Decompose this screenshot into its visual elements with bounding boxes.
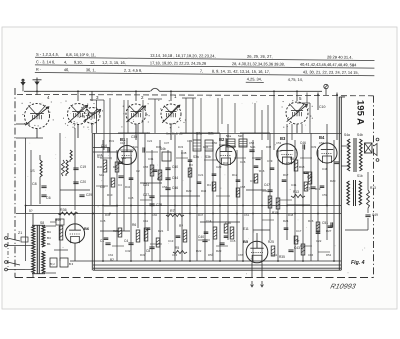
svg-text:R3: R3 (189, 163, 193, 167)
svg-text:B6: B6 (84, 226, 90, 231)
svg-text:195 A: 195 A (355, 100, 366, 125)
svg-text:C63: C63 (172, 253, 178, 257)
svg-text:R49: R49 (140, 253, 146, 257)
svg-text:C27: C27 (143, 193, 149, 197)
svg-text:R10: R10 (107, 193, 113, 197)
svg-text:R52: R52 (326, 253, 332, 257)
svg-text:17,18, 19,20, 21 22,23, 24,25,: 17,18, 19,20, 21 22,23, 24,25,26 (150, 60, 206, 66)
svg-text:C39: C39 (267, 159, 273, 163)
svg-text:R46: R46 (55, 218, 61, 222)
svg-text:R22: R22 (196, 249, 202, 253)
svg-text:R1: R1 (113, 165, 117, 169)
svg-text:C37: C37 (164, 141, 170, 145)
svg-text:R36: R36 (60, 208, 67, 212)
svg-text:S4a: S4a (344, 133, 350, 137)
svg-text:C5: C5 (100, 185, 105, 189)
svg-text:C44: C44 (172, 176, 178, 180)
svg-text:C43: C43 (187, 139, 193, 143)
svg-text:B4: B4 (47, 236, 51, 240)
svg-text:R41: R41 (223, 161, 229, 165)
svg-text:S4b: S4b (357, 133, 363, 137)
svg-text:C8: C8 (146, 249, 150, 253)
svg-text:R24: R24 (283, 219, 289, 223)
svg-text:C22: C22 (316, 239, 322, 243)
svg-text:52b: 52b (238, 134, 243, 138)
svg-text:R51: R51 (272, 253, 278, 257)
svg-text:4,75, 14,: 4,75, 14, (288, 77, 303, 82)
svg-text:7,: 7, (200, 68, 203, 73)
svg-text:C41: C41 (291, 183, 297, 187)
svg-text:R44: R44 (262, 189, 268, 193)
svg-text:R31: R31 (109, 139, 115, 143)
svg-text:C30: C30 (131, 135, 137, 139)
svg-text:C55: C55 (143, 165, 149, 169)
svg-text:28, 4,30,31,32,34,35,36 39,38,: 28, 4,30,31,32,34,35,36 39,38, (232, 61, 285, 67)
svg-text:43, 30, 21, 22, 23, 24, 27,: 43, 30, 21, 22, 23, 24, 27, (303, 69, 347, 74)
svg-text:C22: C22 (147, 139, 153, 143)
svg-text:C8: C8 (32, 182, 37, 186)
svg-text:C42: C42 (307, 175, 313, 179)
svg-text:C65: C65 (238, 253, 244, 257)
svg-text:R23: R23 (216, 249, 222, 253)
svg-text:R13: R13 (370, 186, 376, 190)
svg-text:C60: C60 (152, 213, 158, 217)
svg-text:Z1: Z1 (18, 231, 22, 235)
svg-text:C4: C4 (124, 239, 128, 243)
svg-text:C62: C62 (108, 253, 114, 257)
svg-text:R17: R17 (283, 173, 289, 177)
svg-text:R25: R25 (268, 240, 274, 244)
svg-text:4,25, 34,: 4,25, 34, (247, 76, 262, 81)
svg-text:C48: C48 (322, 167, 328, 171)
svg-text:R45: R45 (105, 213, 111, 217)
svg-text:R15: R15 (272, 211, 278, 215)
svg-text:C57: C57 (162, 185, 168, 189)
svg-text:C2: C2 (136, 169, 140, 173)
svg-text:C56: C56 (286, 161, 292, 165)
svg-text:R32: R32 (156, 145, 162, 149)
svg-text:R?: R? (179, 224, 183, 228)
svg-text:S1b: S1b (357, 174, 363, 178)
svg-text:R4: R4 (207, 183, 211, 187)
svg-text:1S: 1S (30, 169, 35, 173)
svg-text:R33: R33 (178, 145, 184, 149)
svg-text:C29: C29 (86, 193, 92, 197)
svg-text:C26: C26 (240, 160, 246, 164)
svg-text:12,: 12, (90, 60, 95, 65)
svg-text:C17: C17 (296, 229, 302, 233)
svg-text:C3: C3 (101, 145, 105, 149)
svg-text:52a: 52a (226, 134, 231, 138)
svg-text:R29: R29 (186, 189, 192, 193)
svg-text:C47: C47 (264, 183, 270, 187)
svg-text:R12: R12 (232, 173, 238, 177)
svg-text:36, 1,: 36, 1, (86, 67, 96, 72)
svg-text:C6: C6 (46, 196, 51, 200)
svg-text:C14: C14 (206, 219, 212, 223)
svg-text:C46: C46 (172, 186, 178, 190)
svg-text:C49: C49 (372, 213, 378, 217)
svg-text:C21: C21 (198, 173, 204, 177)
svg-text:28 29 40 31,4,: 28 29 40 31,4, (327, 55, 353, 60)
svg-text:4,: 4, (64, 59, 67, 64)
svg-text:S - 1,2,3,4,5,: S - 1,2,3,4,5, (36, 52, 59, 57)
svg-text:C66: C66 (308, 253, 314, 257)
svg-text:R40: R40 (97, 165, 103, 169)
svg-text:R48: R48 (288, 213, 294, 217)
svg-text:R27: R27 (326, 229, 332, 233)
svg-text:R50: R50 (208, 253, 214, 257)
svg-text:13,14, 16,18 , 16,17,19,20,: 13,14, 16,18 , 16,17,19,20, 22,23,24, (150, 53, 216, 59)
svg-text:E11: E11 (243, 227, 249, 231)
svg-text:S3a: S3a (193, 155, 199, 159)
svg-text:R6: R6 (132, 223, 136, 227)
svg-text:46,: 46, (64, 67, 69, 72)
svg-text:R43: R43 (201, 189, 207, 193)
svg-text:B4: B4 (47, 230, 51, 234)
svg-text:C59: C59 (322, 193, 328, 197)
svg-text:8, 9, 14, 11, 42, 13,14, 15, 1: 8, 9, 14, 11, 42, 13,14, 15, 16, 17, (212, 68, 270, 74)
svg-text:6,8, 10,10² 9, 11,: 6,8, 10,10² 9, 11, (66, 52, 96, 57)
svg-text:C4: C4 (118, 183, 122, 187)
svg-text:R35: R35 (279, 255, 285, 259)
svg-text:R10993: R10993 (330, 283, 357, 291)
svg-text:R7: R7 (170, 209, 175, 213)
svg-text:C43: C43 (294, 246, 300, 250)
svg-text:14 15,: 14 15, (348, 70, 359, 75)
svg-text:C53: C53 (276, 141, 282, 145)
svg-text:1,2, 3, 15, 16,: 1,2, 3, 15, 16, (102, 60, 126, 65)
svg-text:Fig. 4: Fig. 4 (351, 260, 365, 266)
svg-text:R2: R2 (157, 177, 161, 181)
svg-text:C52: C52 (249, 141, 255, 145)
svg-text:R -: R - (36, 67, 42, 72)
svg-text:R5: R5 (175, 246, 179, 250)
svg-text:5?: 5? (29, 209, 33, 213)
svg-text:C45: C45 (128, 196, 134, 200)
svg-text:S3b: S3b (205, 155, 211, 159)
svg-text:C24: C24 (143, 183, 149, 187)
svg-text:R38: R38 (266, 145, 272, 149)
svg-text:C20: C20 (80, 180, 86, 184)
svg-text:2, 3, 4,5 6,: 2, 3, 4,5 6, (124, 68, 142, 73)
svg-text:R39: R39 (311, 145, 317, 149)
svg-text:40,41,42,43,45,46,47,48,49, 51: 40,41,42,43,45,46,47,48,49, 51 (300, 62, 354, 68)
svg-text:C13: C13 (168, 239, 174, 243)
svg-text:C25: C25 (100, 219, 106, 223)
svg-text:C54: C54 (319, 141, 325, 145)
svg-text:C58: C58 (240, 185, 246, 189)
svg-text:B2: B2 (219, 137, 225, 142)
svg-text:C16: C16 (97, 153, 103, 157)
svg-text:C40: C40 (198, 235, 204, 239)
svg-text:C61: C61 (244, 213, 250, 217)
svg-text:B,U: B,U (50, 262, 55, 266)
svg-text:C15: C15 (230, 239, 236, 243)
svg-text:R47: R47 (198, 213, 204, 217)
svg-text:C38: C38 (181, 151, 187, 155)
svg-text:C10: C10 (319, 105, 325, 109)
svg-text:C - 3, 14 6,: C - 3, 14 6, (36, 59, 55, 64)
svg-text:R16: R16 (259, 169, 265, 173)
svg-text:S8: S8 (40, 221, 44, 225)
svg-text:9,10,: 9,10, (74, 60, 83, 65)
svg-text:C46: C46 (300, 141, 306, 145)
svg-text:R20: R20 (330, 179, 336, 183)
svg-text:S1b: S1b (99, 173, 105, 177)
svg-text:R42: R42 (125, 185, 131, 189)
svg-text:C40: C40 (172, 165, 178, 169)
svg-text:S4b: S4b (250, 145, 256, 149)
svg-text:R37: R37 (231, 145, 237, 149)
svg-text:51b: 51b (133, 145, 138, 149)
svg-text:R18: R18 (299, 165, 305, 169)
svg-text:26, 25, 26, 27,: 26, 25, 26, 27, (247, 54, 273, 59)
svg-text:B5: B5 (243, 239, 249, 244)
svg-text:C19: C19 (80, 165, 86, 169)
svg-text:C11: C11 (143, 219, 148, 223)
svg-text:R26: R26 (308, 219, 314, 223)
svg-text:B.3: B.3 (69, 262, 74, 266)
svg-text:R13: R13 (293, 190, 299, 194)
svg-text:B2: B2 (110, 258, 114, 262)
svg-text:C28: C28 (156, 203, 162, 207)
svg-text:C31: C31 (148, 157, 154, 161)
svg-text:C50: C50 (212, 141, 218, 145)
svg-text:R21: R21 (158, 229, 164, 233)
svg-text:R34: R34 (203, 145, 209, 149)
svg-text:B1: B1 (47, 242, 51, 246)
svg-text:C34: C34 (219, 143, 225, 147)
svg-text:C23: C23 (216, 165, 222, 169)
svg-text:B4: B4 (319, 135, 325, 140)
svg-text:C51: C51 (322, 221, 328, 225)
svg-text:51a: 51a (121, 156, 126, 160)
svg-text:C32: C32 (125, 249, 131, 253)
svg-text:C12: C12 (120, 141, 126, 145)
svg-text:C35: C35 (276, 149, 282, 153)
